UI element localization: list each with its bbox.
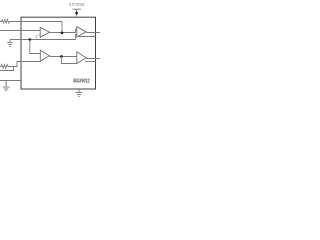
wire B ref rail xyxy=(61,56,76,63)
wire A ref to minus input xyxy=(76,35,77,40)
comparator B input stage triangle xyxy=(40,50,49,61)
junction dot B xyxy=(60,55,63,58)
wire QB bar to pin xyxy=(85,61,96,63)
wire IN2 lower pin xyxy=(0,67,14,71)
junction dot supply terminal xyxy=(75,12,78,15)
ground G2 bottom xyxy=(78,89,80,92)
ground G3 bottom-left xyxy=(5,81,7,87)
wire ground reference rail xyxy=(10,39,76,41)
wire QA bar to pin xyxy=(78,36,96,38)
wire OUTB to pin xyxy=(86,57,100,60)
resistor R1 top-left xyxy=(0,20,21,23)
wire B plus branch xyxy=(30,40,41,54)
ground G1 left xyxy=(9,40,11,43)
comparator B output stage triangle xyxy=(77,52,86,64)
svg-text:+2.7V TO 5.5V: +2.7V TO 5.5V xyxy=(69,2,85,7)
wire B stage link xyxy=(49,55,76,58)
resistor R2 bottom-left xyxy=(0,62,40,69)
comparator A input stage triangle xyxy=(40,27,49,37)
junction dot A xyxy=(61,32,64,35)
wire A stage link with jog xyxy=(50,30,77,33)
wire A minus stub xyxy=(36,35,40,40)
supply terminal bar xyxy=(73,8,82,10)
wire GND pin bottom-left xyxy=(0,80,21,82)
junction dot rail branch xyxy=(29,38,32,41)
comparator A output stage triangle xyxy=(77,27,86,37)
wire OUTA to pin xyxy=(86,31,100,34)
wire IN1 plus input xyxy=(0,30,40,32)
wire input1 top inside xyxy=(21,22,62,33)
svg-text:MAX9012: MAX9012 xyxy=(73,79,90,85)
IC box outline U1 xyxy=(21,17,96,89)
wire supply vertical xyxy=(76,9,78,17)
